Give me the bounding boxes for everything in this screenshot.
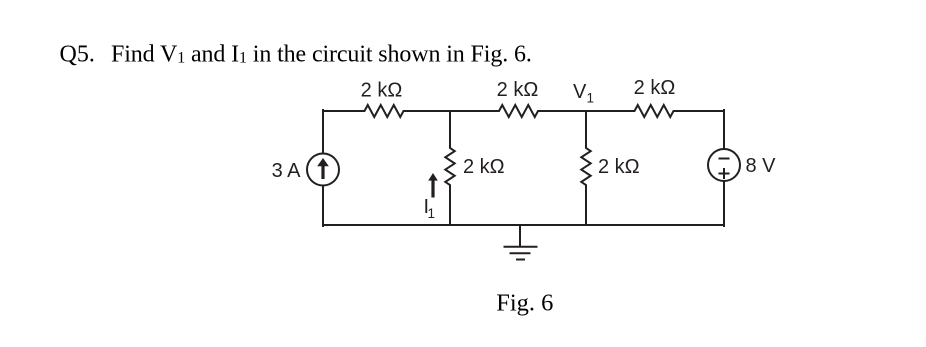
svg-text:2 kΩ: 2 kΩ — [634, 77, 676, 99]
svg-text:3 A: 3 A — [272, 160, 302, 182]
svg-text:V: V — [573, 81, 587, 103]
svg-text:Find V1 and I1 in the circuit: Find V1 and I1 in the circuit shown in F… — [111, 41, 532, 67]
svg-text:2 kΩ: 2 kΩ — [463, 156, 505, 178]
svg-text:1: 1 — [587, 91, 595, 106]
svg-text:8 V: 8 V — [746, 155, 777, 177]
svg-text:Fig. 6: Fig. 6 — [496, 290, 553, 317]
svg-text:2 kΩ: 2 kΩ — [361, 80, 403, 102]
svg-text:Q5.: Q5. — [60, 41, 95, 67]
svg-text:2 kΩ: 2 kΩ — [497, 79, 539, 101]
svg-text:2 kΩ: 2 kΩ — [598, 156, 640, 178]
svg-text:1: 1 — [428, 206, 436, 221]
